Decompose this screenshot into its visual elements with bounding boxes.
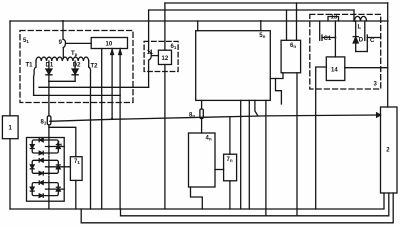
wire 7n bottom (229, 181, 231, 209)
wire D1-D2 bus (49, 80, 75, 82)
wire 4n bottom (191, 187, 203, 209)
box 6n (281, 40, 301, 73)
capacitor C1 (319, 21, 321, 40)
box 5n (196, 31, 271, 101)
svg-text:4n: 4n (206, 135, 212, 141)
wire top bus 2 (149, 9, 354, 11)
box 12 (158, 50, 171, 64)
box 7n (224, 154, 237, 181)
wire main bottom edge (10, 193, 384, 209)
box 7_1 (70, 157, 82, 181)
wire emitter bus to 11 (39, 86, 149, 88)
svg-text:D1: D1 (46, 63, 54, 69)
wire 5n to 6n connector (270, 73, 283, 79)
wire 6n top drop from bus1 (296, 3, 298, 40)
wire 5n pin a (240, 100, 242, 209)
diode D (355, 21, 357, 37)
wire 9 to transformer tap (62, 48, 64, 59)
wire box 12 top drop (164, 3, 166, 50)
svg-text:D: D (359, 38, 364, 44)
wire box 12 bottom down (164, 65, 166, 210)
wire bottom bus B (81, 193, 393, 223)
wire 5n pin d (265, 100, 267, 215)
box 4n (189, 133, 216, 187)
wire 7_1 tap (49, 127, 76, 156)
wire box10 pin right (119, 49, 121, 210)
transistor 11 (149, 10, 152, 87)
svg-text:71: 71 (74, 159, 80, 165)
dashed box 6_1 (144, 41, 178, 71)
wire main left edge upper (9, 21, 11, 116)
wire D-C bottom (356, 51, 368, 53)
wire box10 pin middle (111, 49, 113, 119)
svg-text:5n: 5n (259, 33, 265, 39)
bridge cell 3 (30, 181, 64, 197)
svg-text:11: 11 (147, 50, 154, 56)
wire 5n pin b (248, 100, 250, 209)
wire top bus 1 (165, 2, 388, 4)
wire main left edge lower (9, 139, 11, 209)
wire node 9 drop from top bus (62, 21, 64, 39)
transformer Tp winding (36, 57, 89, 61)
wire 6n top drop from bus2 (286, 10, 288, 40)
svg-text:C: C (370, 38, 375, 44)
wire winding right end down (88, 61, 90, 67)
wire main right vertical (387, 3, 389, 107)
svg-text:6n: 6n (290, 43, 296, 49)
box 10 (91, 38, 127, 49)
inductor L (355, 16, 367, 21)
wire main top bus (10, 20, 388, 22)
wire 6n drop staircase (276, 79, 282, 105)
transistor 13 (328, 17, 339, 22)
wire T2 emitter down (90, 87, 92, 209)
wire gate drop to box 14 (334, 21, 336, 57)
box 2 (381, 107, 398, 193)
wire bridge center vertical (48, 138, 50, 154)
wire 5n pin c (255, 100, 258, 116)
sensor 8n (201, 100, 203, 109)
transistor T1 (34, 67, 36, 95)
box 14 (326, 57, 345, 81)
wire 14 right to right vertical (345, 67, 388, 69)
bridge cell 1 (30, 138, 64, 154)
svg-text:Tp: Tp (71, 51, 78, 57)
svg-text:T2: T2 (91, 64, 99, 70)
svg-text:14: 14 (331, 68, 338, 74)
svg-text:12: 12 (162, 56, 169, 62)
dashed box 3 (310, 14, 381, 89)
svg-text:8n: 8n (189, 113, 195, 119)
transistor 9 (63, 39, 66, 47)
wire winding left end down (35, 61, 37, 67)
wire feedback bus to box 2 (50, 115, 380, 121)
arrow into box 2 (377, 113, 381, 117)
wire 6n right pin down (296, 73, 298, 216)
svg-text:7n: 7n (227, 157, 233, 163)
svg-text:81: 81 (41, 120, 47, 126)
svg-text:61: 61 (171, 44, 177, 50)
wire bottom bus A (121, 193, 389, 216)
wire box10 pin left (101, 49, 103, 210)
svg-text:D2: D2 (73, 63, 81, 69)
wire 9 to box 10 (66, 42, 92, 44)
svg-text:41: 41 (57, 142, 63, 148)
sensor 8_1 (48, 81, 50, 116)
wire 7n top drop (229, 117, 231, 154)
svg-text:T1: T1 (26, 63, 34, 69)
bridge cell 2 (30, 159, 70, 175)
wire 5n top drop left (197, 21, 199, 31)
svg-text:51: 51 (23, 38, 29, 44)
box 1 (2, 116, 18, 139)
wire 14 left down (316, 67, 327, 209)
wire T1 emitter bus (34, 94, 121, 96)
wire 11 base to box 12 (151, 55, 158, 57)
svg-text:13: 13 (331, 14, 338, 20)
arrow pin middle (111, 50, 114, 55)
svg-text:L: L (358, 25, 362, 31)
bridge box 4_1 (27, 138, 65, 202)
wire 7_1 bottom (75, 180, 77, 209)
capacitor C (364, 21, 366, 41)
diode D1 (48, 61, 50, 69)
svg-text:C1: C1 (324, 36, 332, 42)
wire 4n to 7n (215, 169, 224, 171)
wire 5n top drop right (260, 21, 262, 31)
dashed box 5_1 (20, 31, 133, 103)
diode D2 (74, 61, 76, 69)
svg-text:10: 10 (106, 42, 113, 48)
transistor T2 (89, 67, 91, 87)
arrow pin right (119, 50, 122, 55)
wire bus2 right drop to L node (353, 10, 355, 21)
